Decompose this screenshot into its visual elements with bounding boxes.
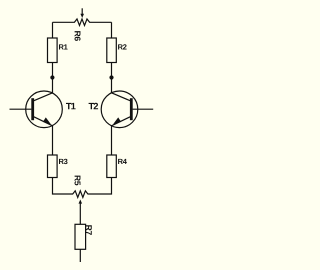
wire T1 emitter to R3	[52, 126, 54, 155]
label R5 (rotated 90deg)	[75, 176, 81, 186]
wire R2 to T2 collector	[111, 63, 113, 93]
wire right rail to R2	[111, 22, 113, 38]
junction node on right collector rail	[109, 75, 113, 79]
label R2	[118, 44, 126, 49]
wire left rail to R1	[52, 22, 54, 38]
label R4	[118, 159, 127, 164]
wire T2 emitter to R4	[111, 126, 113, 155]
wire R6 wiper lead (from top)	[81, 8, 83, 14]
potentiometer R5 (zigzag with emitter bus wires)	[53, 178, 112, 198]
label R6 (rotated 90deg)	[75, 31, 81, 41]
transistor T1 (NPN)	[10, 91, 63, 128]
wire R1 to T1 collector	[52, 63, 54, 93]
resistor R4	[107, 155, 117, 178]
label R1	[59, 44, 68, 49]
T2 emitter arrowhead	[113, 117, 121, 124]
resistor R7	[75, 224, 86, 249]
resistor R3	[48, 155, 58, 178]
resistor R1	[48, 38, 58, 63]
arrowhead of R6 wiper (pointing down)	[80, 14, 84, 18]
label T1	[66, 103, 76, 109]
label R7 (rotated 90deg)	[86, 225, 92, 235]
resistor R2	[107, 38, 117, 63]
wire below R7 (tail lead)	[79, 249, 81, 262]
label R3	[59, 159, 68, 164]
arrowhead of R5 wiper (pointing up)	[79, 200, 83, 204]
potentiometer R6 (zigzag with top wire runs)	[53, 19, 112, 26]
T1 emitter arrowhead	[43, 117, 51, 124]
transistor T2 (NPN, mirrored)	[101, 91, 153, 128]
wire R5 wiper to R7	[79, 203, 81, 224]
label T2	[89, 103, 98, 109]
junction node on left collector rail	[50, 75, 54, 79]
